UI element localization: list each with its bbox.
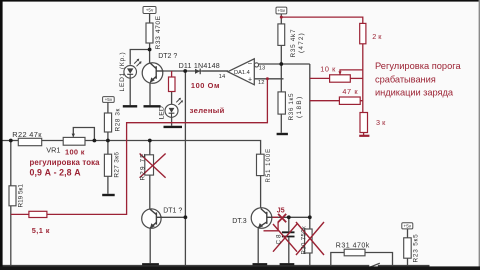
svg-text:(18В): (18В) xyxy=(296,95,303,118)
svg-text:(472): (472) xyxy=(298,32,305,53)
svg-text:зеленый: зеленый xyxy=(190,106,225,115)
svg-text:LED1 (Кр.): LED1 (Кр.) xyxy=(119,51,126,91)
svg-text:регулировка тока: регулировка тока xyxy=(30,158,101,167)
svg-text:R22 47к: R22 47к xyxy=(12,130,42,139)
svg-text:+5v: +5v xyxy=(404,224,412,229)
svg-text:DT2 ?: DT2 ? xyxy=(158,53,177,60)
svg-text:R29 7Е: R29 7Е xyxy=(139,152,146,180)
svg-text:+5v: +5v xyxy=(146,8,154,13)
svg-text:0,9 А - 2,8 А: 0,9 А - 2,8 А xyxy=(30,168,82,178)
svg-text:R31 470k: R31 470k xyxy=(336,242,370,249)
svg-text:D11 1N4148: D11 1N4148 xyxy=(179,62,220,70)
svg-text:13: 13 xyxy=(259,66,265,72)
svg-text:100 Ом: 100 Ом xyxy=(191,81,220,90)
svg-text:14: 14 xyxy=(219,74,226,80)
svg-text:R27 3к6: R27 3к6 xyxy=(114,152,121,178)
svg-text:R33 470Е: R33 470Е xyxy=(155,15,162,49)
svg-text:J5: J5 xyxy=(277,207,285,214)
svg-text:10 к: 10 к xyxy=(320,65,336,74)
svg-text:LED: LED xyxy=(158,106,165,119)
svg-text:3 к: 3 к xyxy=(376,118,386,127)
svg-text:R35 4k7: R35 4k7 xyxy=(290,29,297,58)
svg-text:R23 5к5: R23 5к5 xyxy=(413,233,420,262)
svg-text:47 к: 47 к xyxy=(342,87,358,96)
svg-text:Регулировка порога: Регулировка порога xyxy=(375,61,461,71)
svg-text:R19 5к1: R19 5к1 xyxy=(17,184,24,208)
svg-text:R28 3к: R28 3к xyxy=(114,108,121,131)
svg-text:DA1.4: DA1.4 xyxy=(234,70,250,76)
svg-text:–: – xyxy=(248,61,252,68)
svg-text:R51 100Е: R51 100Е xyxy=(266,148,272,183)
svg-text:2 к: 2 к xyxy=(372,32,382,41)
svg-text:С8: С8 xyxy=(276,232,283,244)
svg-text:12: 12 xyxy=(258,80,264,86)
svg-text:+: + xyxy=(248,77,252,84)
svg-text:DT1 ?: DT1 ? xyxy=(163,208,182,215)
svg-text:VR1: VR1 xyxy=(46,146,60,155)
svg-text:5,1 к: 5,1 к xyxy=(32,226,50,235)
svg-text:срабатывания: срабатывания xyxy=(375,75,436,85)
svg-text:индикации заряда: индикации заряда xyxy=(375,87,454,97)
svg-text:+5v: +5v xyxy=(105,97,113,102)
svg-text:R30 750к: R30 750к xyxy=(302,226,308,255)
svg-text:DT.3: DT.3 xyxy=(232,218,247,225)
svg-text:R36 1к5: R36 1к5 xyxy=(288,93,295,121)
svg-text:+5v: +5v xyxy=(278,8,286,13)
svg-text:100 к: 100 к xyxy=(65,148,85,157)
